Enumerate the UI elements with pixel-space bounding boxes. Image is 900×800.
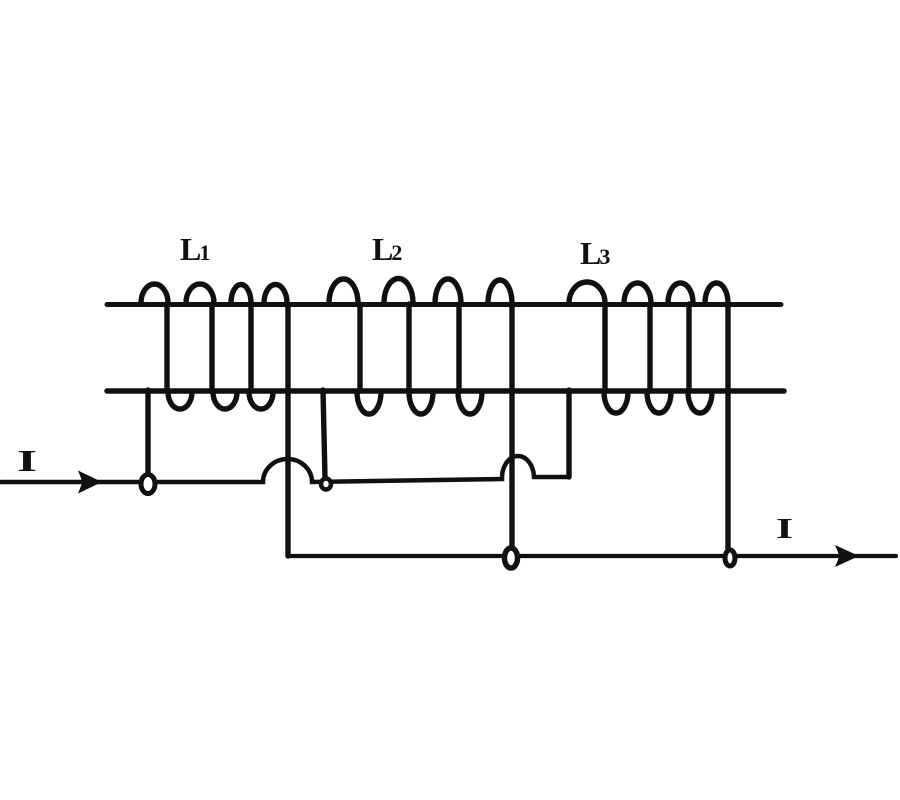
svg-text:I: I	[776, 513, 793, 545]
svg-text:I: I	[17, 443, 37, 478]
